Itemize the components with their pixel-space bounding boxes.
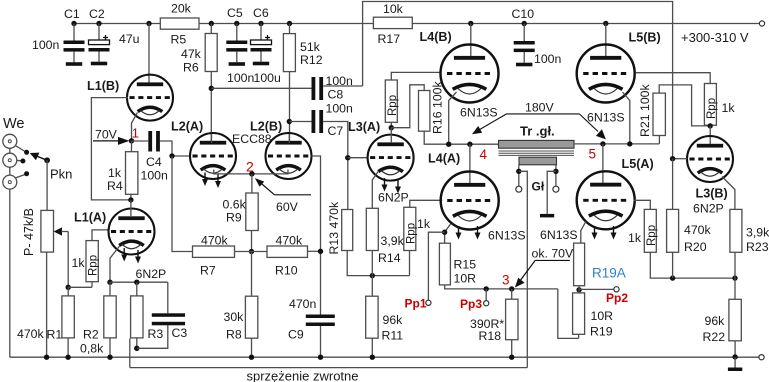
resistor Rpp (L4A grid) (404, 207, 416, 250)
node: rail junction L5(B) anode (603, 21, 608, 26)
wire: C5 stem (236, 24, 238, 41)
svg-text:C6: C6 (253, 6, 269, 20)
svg-text:470k: 470k (684, 223, 712, 237)
wire: R21 top to Rpp bottom node (659, 85, 710, 126)
svg-text:51k: 51k (300, 40, 321, 54)
resistor R17 10k (373, 17, 412, 28)
wire: feedback from secondary (519, 171, 528, 367)
svg-text:L3(A): L3(A) (348, 120, 380, 134)
wire: top coupling line (363, 2, 673, 159)
svg-text:96k: 96k (383, 313, 404, 327)
resistor R14 3,9k (366, 208, 378, 250)
node 2 (249, 171, 254, 176)
wire: L4(B) anode lead (470, 24, 472, 58)
capacitor C1 100n (64, 41, 85, 66)
resistor R7 470k (193, 246, 235, 257)
wire: R6 bottom to L2(A) anode (210, 72, 212, 144)
svg-text:100u: 100u (254, 71, 282, 85)
svg-text:3,9k: 3,9k (381, 234, 405, 248)
wire: bias bus down to R11 (371, 276, 373, 297)
wire: L5(A) cathode lead (581, 222, 586, 244)
wire: Rpp bottom to bias bus (409, 251, 411, 276)
wire: R12 top stub (289, 24, 291, 34)
resistor Rpp (L5A grid) (644, 209, 656, 252)
svg-text:L1(B): L1(B) (87, 79, 119, 93)
svg-text:47k: 47k (181, 47, 202, 61)
wire: C7 left wire (289, 121, 314, 123)
tube L1(B) ECC-half (127, 75, 173, 121)
wire: secondary to ground (547, 171, 556, 214)
wire: Rpp top to L1(A) grid (92, 230, 109, 241)
60V pointer arrow (255, 178, 311, 214)
resistor R9 0.6k (246, 193, 258, 231)
node: L4(A) cathode (442, 230, 447, 235)
node: secondary left (516, 169, 521, 174)
input jack 2 (3, 153, 26, 167)
resistor Rpp (L5B grid) (704, 84, 716, 126)
resistor R8 30k (245, 296, 257, 338)
svg-text:0,8k: 0,8k (80, 342, 104, 356)
wire: L3(B) anode lead (709, 126, 711, 144)
resistor R3 (131, 296, 143, 338)
svg-text:L4(B): L4(B) (420, 30, 452, 44)
wire: main +300V rail (74, 23, 760, 25)
resistor R20 470k (667, 209, 679, 252)
wire: L5(B) grid to Rpp (636, 73, 711, 84)
capacitor C9 470n (306, 315, 335, 358)
pot wiper arrow (54, 227, 69, 235)
svg-text:R12: R12 (300, 53, 323, 67)
svg-text:100n: 100n (534, 52, 562, 66)
resistor R11 96k (366, 296, 378, 338)
tube L5(B) 6N13S (577, 45, 635, 103)
capacitor C6 100u electrolytic (251, 40, 272, 65)
wire: Pp2 stub (579, 288, 614, 290)
svg-text:C1: C1 (64, 7, 80, 21)
svg-text:6N2P: 6N2P (136, 267, 167, 281)
svg-text:Rpp: Rpp (88, 255, 100, 276)
tube L3(A) 6N2P (368, 135, 414, 194)
svg-text:+300-310 V: +300-310 V (681, 30, 749, 45)
wire: node 5 to L5(A) anode (602, 144, 604, 184)
svg-text:C7: C7 (328, 124, 344, 138)
terminal Pp2 (614, 287, 619, 292)
wire: L1(B) anode lead (148, 24, 150, 84)
node 1 (129, 138, 134, 143)
svg-text:C10: C10 (512, 7, 535, 21)
wire: junction to Rpp bottom (68, 286, 92, 288)
svg-text:R16 100k: R16 100k (431, 81, 445, 134)
wire: jack shells to ground (9, 148, 11, 153)
ok. 70V pointer (515, 246, 574, 287)
wire: grid node down to R7 (172, 156, 193, 252)
svg-text:470n: 470n (289, 297, 317, 311)
node: rail junction R6 (209, 21, 214, 26)
wire: junction to R10 (235, 251, 268, 253)
wire: L5(A) grid to Rpp (634, 200, 651, 209)
resistor R18 390R* (506, 299, 518, 340)
node: R7/R9/R10 junction (249, 249, 254, 254)
svg-text:6N2P: 6N2P (693, 202, 724, 216)
wire: L4(B) cathode lead (449, 92, 457, 144)
resistor Rpp (L4B grid) (385, 80, 397, 122)
svg-text:R2: R2 (83, 328, 99, 342)
node: R23 bottom on bus (732, 275, 737, 280)
wire: Pkn to potentiometer (46, 160, 48, 210)
resistor R19A (574, 243, 585, 286)
tube L1(A) 6N2P (109, 209, 155, 264)
wire: C4 to L2(A) grid (160, 141, 190, 156)
capacitor C7 100n (312, 110, 324, 133)
wire: Rpp bottom to anode node (390, 122, 392, 127)
plus sign C6 (265, 35, 270, 40)
node: R10/C9 junction (318, 249, 323, 254)
node: rail junction R12 (287, 21, 292, 26)
svg-text:ECC88: ECC88 (232, 132, 272, 146)
svg-text:470k: 470k (276, 234, 304, 248)
svg-text:We: We (3, 116, 25, 132)
svg-text:3,9k: 3,9k (746, 226, 769, 240)
node: rail junction C2 (96, 21, 101, 26)
node: R3 bottom / C3 (134, 346, 139, 351)
wire: C8 left wire (211, 87, 311, 89)
resistor R13 body (342, 210, 353, 251)
node: secondary right (553, 169, 558, 174)
wire: L2(A) anode lead (211, 134, 213, 143)
wire: L3(A) cathode to R14 (372, 171, 378, 208)
resistor R10 470k (267, 246, 308, 257)
svg-text:100n: 100n (32, 38, 60, 52)
wire: anode node to R16 top (391, 85, 424, 128)
svg-text:Gł: Gł (532, 180, 545, 194)
svg-text:470k: 470k (201, 234, 229, 248)
node: L3(A) anode (389, 125, 394, 130)
svg-text:6N2P: 6N2P (378, 191, 409, 205)
svg-text:R17: R17 (378, 32, 401, 46)
svg-text:ok. 70V: ok. 70V (532, 246, 574, 260)
node: rail junction C10 (522, 21, 527, 26)
svg-text:2: 2 (246, 159, 254, 175)
node: rail junction C6 (258, 21, 263, 26)
wire: C1 stem (73, 24, 75, 41)
node 5 (600, 141, 605, 146)
svg-text:10R: 10R (454, 272, 477, 286)
feedback line (130, 367, 528, 369)
terminal Pp3 (484, 301, 489, 306)
resistor R19 10R (573, 293, 585, 334)
wire: R13 top to grid node (347, 158, 349, 210)
tube L2(B) (266, 133, 312, 179)
node: Pp3 junction (484, 286, 489, 291)
node 4 (467, 142, 472, 147)
svg-text:L5(B): L5(B) (629, 31, 661, 45)
wire: C8 right wire to top line (323, 85, 363, 87)
node: R1 top junction (66, 285, 71, 290)
svg-text:6N13S: 6N13S (460, 106, 498, 120)
wire: L4(A) cathode lead (445, 224, 451, 243)
svg-text:100n: 100n (326, 102, 354, 116)
svg-text:L2(A): L2(A) (171, 120, 203, 134)
svg-text:R19: R19 (590, 325, 613, 339)
svg-text:P- 47k/B: P- 47k/B (22, 208, 36, 256)
svg-text:96k: 96k (705, 314, 726, 328)
svg-text:470k: 470k (17, 327, 45, 341)
wire: C2 stem (98, 24, 100, 41)
capacitor C4 100n (132, 131, 160, 152)
node: R19A/R19 junction (576, 287, 581, 292)
wire: R16 bottom to node 4 line (424, 131, 498, 144)
wire: C10 stem (523, 24, 525, 42)
wire: wiper down to R1 node (67, 232, 69, 288)
resistor Rpp (L1A grid stopper) (86, 241, 98, 282)
node: L3(B) grid junction (670, 156, 675, 161)
wire: Pp3 stub (485, 289, 487, 301)
svg-text:1k: 1k (72, 256, 86, 270)
node: R3 top junction (134, 280, 139, 285)
wire: secondary left terminal (518, 165, 520, 186)
svg-text:Pp3: Pp3 (460, 297, 482, 311)
svg-text:Pp2: Pp2 (606, 291, 628, 305)
wire: L3(B) cathode to R23 (722, 177, 735, 210)
180V pointer (472, 101, 606, 140)
node 3 (509, 286, 514, 291)
capacitor C10 100n (514, 41, 535, 66)
svg-text:6N13S: 6N13S (587, 111, 625, 125)
svg-text:Rpp: Rpp (405, 223, 417, 244)
resistor R2 0,8k (104, 296, 116, 338)
terminal: speaker left (516, 186, 522, 192)
resistor R12 51k (283, 34, 295, 72)
wire: L2(B) grid line down (312, 156, 321, 315)
svg-text:47u: 47u (119, 32, 140, 46)
svg-text:C5: C5 (227, 6, 243, 20)
svg-text:6N13S: 6N13S (540, 228, 578, 242)
transformer Tr.gl. (499, 124, 575, 165)
wire: cathode to Pp1 (428, 232, 444, 300)
svg-text:4: 4 (480, 147, 488, 162)
svg-text:C3: C3 (172, 326, 188, 340)
node: rail junction L4(B) anode (468, 21, 473, 26)
svg-text:R21 100k: R21 100k (638, 84, 652, 137)
svg-text:3: 3 (502, 273, 510, 288)
wire: L3(B) grid to R20 line (673, 158, 687, 160)
wire: grid node down to R20 (672, 159, 674, 210)
resistor R15 10R (439, 243, 450, 285)
svg-text:C4: C4 (146, 155, 162, 169)
terminal: speaker right (553, 186, 559, 192)
wire: feedback attach at R3 bottom (129, 339, 131, 368)
node: cathode junction R2 (107, 280, 112, 285)
svg-text:1k: 1k (722, 101, 736, 115)
capacitor C8 100n (312, 77, 324, 100)
svg-text:R4: R4 (107, 179, 123, 193)
node: rail junction L1(B) anode (146, 21, 151, 26)
svg-text:1k: 1k (417, 217, 431, 231)
svg-text:10R: 10R (591, 309, 614, 323)
svg-text:C9: C9 (288, 328, 304, 342)
svg-text:5: 5 (589, 147, 597, 162)
svg-text:Pp1: Pp1 (405, 297, 427, 311)
tube L5(A) 6N13S (577, 171, 635, 239)
wire: L5(B) cathode lead (623, 92, 630, 144)
wire: R15 bottom to node 3 line (445, 285, 558, 289)
svg-text:Tr .gł.: Tr .gł. (520, 124, 555, 139)
svg-text:100n: 100n (227, 71, 255, 85)
wire: L5(B) anode lead (605, 24, 607, 58)
svg-text:R1: R1 (47, 328, 63, 342)
svg-text:R22: R22 (703, 330, 726, 344)
svg-text:C2: C2 (89, 7, 105, 21)
svg-text:70V: 70V (95, 128, 118, 142)
wire: R10 right to grid line node (308, 250, 321, 252)
ground: speaker (540, 214, 554, 218)
svg-text:R23: R23 (746, 240, 769, 254)
tube L3(B) 6N2P (687, 136, 733, 182)
input jack 3 (3, 171, 29, 189)
svg-text:R5: R5 (171, 33, 187, 47)
wire: node 4 to L4(A) anode (469, 144, 471, 184)
svg-text:R14: R14 (378, 251, 401, 265)
terminal: ground rail end (759, 355, 764, 360)
wire: R12 bottom to L2(B) anode (289, 72, 291, 143)
svg-text:sprzężenie zwrotne: sprzężenie zwrotne (247, 369, 359, 382)
node: C8 tap on L2(A) anode line (209, 86, 214, 91)
wire: C7 right wire to L3(A) grid (323, 122, 348, 158)
svg-text:1: 1 (132, 126, 139, 141)
tube L2(A) (190, 133, 236, 188)
wire: L2(B) anode lead (288, 134, 290, 143)
svg-text:20k: 20k (171, 2, 192, 16)
svg-text:R13 470k: R13 470k (327, 201, 341, 254)
svg-text:R11: R11 (382, 329, 404, 343)
node: L2(A) grid / R7 junction (169, 153, 174, 158)
node: rail dots (44, 355, 49, 360)
terminal Pp1 (426, 300, 431, 305)
terminal: +300V supply (759, 21, 764, 26)
svg-text:60V: 60V (276, 200, 299, 214)
wire: R13 bottom to bias bus (347, 251, 409, 276)
resistor R1 470k (62, 296, 74, 338)
svg-text:R6: R6 (183, 61, 199, 75)
tube L4(A) 6N13S (441, 172, 499, 240)
wire: cathode bus down to C3 top (167, 282, 169, 313)
wire: Rpp top to L4(A) grid (410, 200, 442, 207)
wire: cathode bus (110, 281, 168, 283)
resistor R5 20k (160, 18, 199, 29)
node: L4(B) cathode on node4 line (446, 142, 451, 147)
svg-text:1k: 1k (628, 231, 642, 245)
svg-text:Rpp: Rpp (387, 95, 399, 116)
potentiometer P-47k/B (41, 210, 54, 252)
resistor R22 96k (729, 299, 741, 341)
svg-text:R3: R3 (148, 327, 164, 341)
wire: R21 bottom to node5 line (658, 136, 660, 144)
svg-text:6N13S: 6N13S (488, 229, 526, 243)
node: R20 bottom on bus (670, 275, 675, 280)
svg-text:R9: R9 (226, 211, 242, 225)
node: R14 bottom on bias bus (370, 273, 375, 278)
capacitor C5 100n (226, 41, 247, 66)
switch Pkn arm (30, 153, 50, 164)
wire: grid node to L3(A) (348, 157, 368, 159)
svg-text:C8: C8 (328, 88, 344, 102)
wire: pot bottom to ground rail (46, 252, 48, 357)
wire: node3 to R19 bottom (558, 289, 579, 339)
wire: R3 bottom to C3 bottom (137, 325, 168, 348)
tube L4(B) 6N13S (441, 45, 499, 103)
svg-text:0.6k: 0.6k (223, 198, 247, 212)
capacitor C3 (152, 313, 185, 325)
wire: Rpp top to L4(B) grid (391, 72, 440, 80)
svg-text:L1(A): L1(A) (74, 211, 106, 225)
svg-text:Rpp: Rpp (646, 225, 658, 246)
wire: L1(B) grid to R4 bottom node (91, 98, 130, 200)
svg-text:L5(A): L5(A) (622, 157, 654, 171)
svg-text:180V: 180V (525, 101, 555, 115)
wire: L1(B) cathode to node 1 (132, 113, 138, 141)
svg-text:100n: 100n (141, 169, 169, 183)
wire: C6 stem (260, 24, 262, 41)
resistor R4 1k (126, 152, 138, 195)
resistor R16 100k (419, 91, 430, 132)
wire: anode lead L3(A) (390, 128, 392, 143)
svg-text:10k: 10k (383, 2, 404, 16)
node: rail junction C5 (234, 21, 239, 26)
svg-text:Pkn: Pkn (50, 167, 72, 182)
wire: L1(A) cathode lead (110, 246, 120, 283)
svg-text:R7: R7 (200, 264, 216, 278)
input jack 1 (3, 134, 29, 155)
node: L5(B) cathode (627, 141, 632, 146)
svg-text:L3(B): L3(B) (696, 187, 728, 201)
node: C7 tap on L2(B) anode (287, 119, 292, 124)
node: L1(A) anode / L1(B) grid (128, 197, 133, 202)
svg-text:R15: R15 (454, 258, 477, 272)
ground symbol main (728, 357, 742, 371)
svg-text:1k: 1k (108, 166, 122, 180)
wire: R9 node down to R8 (251, 252, 253, 297)
wire: Rpp bottom to right bias bus (650, 252, 735, 278)
wire: node4 line to primary (574, 143, 659, 145)
svg-text:L4(A): L4(A) (428, 152, 460, 166)
resistor R23 3,9k (730, 209, 742, 252)
wire: R6 top stub (210, 24, 212, 34)
node: L3(B) anode (708, 123, 713, 128)
node: L3(A) grid junction (345, 155, 350, 160)
ground rail (10, 356, 759, 358)
svg-text:Rpp: Rpp (706, 98, 718, 119)
resistor R21 100k (653, 93, 665, 135)
svg-text:R18: R18 (479, 329, 502, 343)
svg-text:30k: 30k (224, 310, 245, 324)
svg-text:R20: R20 (684, 240, 707, 254)
wire: secondary right terminal (555, 165, 557, 186)
wire: L1(A) anode lead (130, 200, 132, 216)
plus sign C2 (103, 35, 108, 40)
capacitor C2 47u electrolytic (89, 40, 110, 65)
svg-text:R10: R10 (275, 264, 298, 278)
node: rail junction C1 (71, 21, 76, 26)
70V pointer (93, 128, 130, 145)
resistor R6 47k (205, 34, 217, 72)
wire: cathode bus L2 (214, 170, 288, 174)
svg-text:R19A: R19A (592, 266, 626, 281)
svg-text:R8: R8 (226, 328, 242, 342)
svg-text:L2(B): L2(B) (250, 120, 282, 134)
